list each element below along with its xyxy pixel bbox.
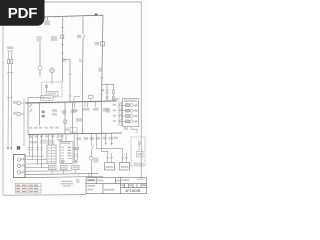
title block texts	[87, 179, 95, 181]
label left of rails	[106, 108, 111, 113]
mark 4P near title block	[76, 179, 79, 183]
branch to V4	[63, 60, 71, 102]
relay row 2	[119, 108, 139, 112]
switchgear box top edge	[28, 97, 44, 99]
feeder drop in box	[39, 103, 41, 125]
fuse branch U-drop	[102, 84, 114, 101]
label mid-1	[52, 109, 57, 112]
main top bus	[43, 15, 103, 17]
junction tick on V1	[100, 77, 103, 79]
relay row 1	[119, 103, 139, 107]
drop D1 from bus2	[91, 134, 93, 178]
switch blade on D1	[92, 146, 94, 150]
bus2 ticks	[30, 134, 58, 136]
CT cups right box	[121, 157, 127, 158]
panel output stubs	[21, 160, 25, 173]
feeder stub into right box	[126, 153, 128, 163]
panel output cable A	[25, 155, 44, 157]
riser wire CB column	[23, 99, 25, 147]
PDF badge	[0, 0, 45, 26]
label V1 mid	[99, 68, 103, 73]
feeder drop x72.5	[72, 102, 74, 134]
below relay box wiring	[131, 127, 137, 134]
stub drop Mc	[95, 101, 97, 107]
breaker blades in box	[30, 104, 32, 112]
legend text cells	[16, 185, 38, 193]
stub drop Ma	[74, 102, 76, 109]
label B on V2	[79, 59, 82, 62]
label box in DB2	[136, 152, 143, 157]
feeder box FB1	[105, 163, 115, 171]
CT cups left box	[106, 157, 112, 158]
box2 text rows	[61, 147, 64, 159]
feeder box FB2	[120, 163, 130, 171]
tick V4	[69, 74, 72, 96]
contact boxes on risers	[73, 147, 75, 150]
stub above bus	[74, 97, 80, 102]
component at branch	[63, 59, 66, 62]
link V2 to bus2	[81, 101, 83, 134]
relay box small on bus2	[70, 128, 77, 132]
box1 text rows	[48, 147, 55, 162]
bottom long bus E2	[25, 173, 98, 174]
feeder drop x65	[64, 102, 66, 134]
bus2 feeder labels	[77, 137, 81, 140]
relay panel box	[123, 99, 139, 127]
junction ticks L1 L2 upper	[7, 72, 13, 74]
pump circle	[74, 160, 77, 163]
drop D3 jumper to right box	[97, 134, 123, 163]
title block outer	[86, 178, 147, 194]
label mid center	[76, 118, 82, 122]
label cluster mid	[51, 36, 57, 41]
relay row labels	[113, 104, 117, 122]
label box L3	[72, 166, 80, 170]
stub drops Mb pair	[85, 101, 88, 107]
label above bus right	[112, 98, 120, 100]
label cluster top-mid	[44, 21, 50, 26]
junction ticks L1 L2 lower	[7, 97, 13, 99]
label Mc	[93, 108, 99, 111]
legend table	[15, 184, 41, 193]
fuse F1	[106, 90, 108, 93]
panel output cable E	[25, 170, 72, 172]
tick marks V3	[61, 27, 64, 53]
contact tick pairs on risers	[28, 148, 43, 150]
link V1 to bus2	[101, 101, 103, 134]
label M1	[95, 42, 100, 45]
relay row 3	[119, 113, 139, 117]
dashed enclosure DB2	[131, 137, 145, 166]
wire feeder V2	[81, 17, 84, 101]
junction block dark	[17, 146, 20, 149]
mid bus ticks	[28, 101, 114, 105]
MCC table box1	[47, 145, 56, 164]
small component x65	[64, 120, 67, 123]
panel feeder text PanelG	[7, 46, 13, 49]
label box DB1 outer	[41, 96, 54, 100]
incoming line L1	[7, 51, 10, 150]
panel output cable D	[25, 167, 49, 169]
stub bus drop	[47, 17, 49, 21]
bus2 labels below	[29, 135, 63, 137]
feeder drop to table box1 a	[48, 135, 50, 145]
label bottom DB2	[134, 162, 144, 165]
label box drops	[52, 170, 75, 174]
CT box on V3	[61, 35, 64, 39]
distribution panel box	[14, 155, 25, 178]
fuse on L2	[11, 60, 13, 64]
label mid-2	[62, 110, 66, 114]
feeder drop to table box1 b	[52, 135, 54, 146]
panel output cable C	[25, 163, 47, 165]
disconnect switch on V1	[102, 89, 104, 93]
small box above bus T1	[90, 99, 92, 102]
stubs CB	[21, 103, 25, 114]
pump riser Pb	[76, 134, 78, 160]
fuse F2	[112, 90, 114, 93]
switch in DB2	[139, 140, 141, 151]
label box L2	[60, 166, 67, 170]
breaker inside DB1	[46, 84, 48, 92]
box2 title	[61, 142, 71, 144]
breaker circle CB-A	[17, 101, 21, 105]
wire G1 drop	[51, 73, 53, 85]
wire feeder V1	[102, 15, 104, 101]
label Mb	[83, 108, 89, 111]
notes under bus2	[30, 141, 37, 143]
panel output cable B	[25, 158, 47, 160]
panel circle labels	[22, 158, 25, 159]
svg-text:4F16D/B: 4F16D/B	[125, 189, 140, 193]
riser wires into panel area	[29, 134, 42, 167]
relay row 4	[119, 119, 139, 123]
switch LA1 blade	[83, 35, 85, 39]
label Ma	[72, 109, 78, 112]
breaker M1 box	[100, 42, 104, 47]
label mid-3	[71, 110, 76, 113]
circle symbol in box2	[61, 160, 64, 163]
breaker circle CB-B	[17, 112, 21, 116]
terminal bars L1 L2	[7, 50, 13, 52]
label on D1	[93, 158, 98, 163]
panel breaker 3	[17, 171, 20, 174]
ticks on risers	[73, 155, 78, 157]
secondary bus2	[28, 133, 122, 134]
label box DB1 inner	[46, 92, 58, 97]
generator circle G1	[50, 68, 54, 72]
meter circle A1	[38, 66, 42, 70]
panel breaker 2	[17, 164, 20, 167]
pump riser Pa	[73, 134, 75, 160]
switchgear box left edge	[27, 98, 29, 135]
contact squares 17B	[42, 111, 45, 114]
feeder stub into left box	[111, 153, 113, 163]
feeder drop to table box2 b	[65, 134, 67, 142]
fuse F4	[112, 96, 114, 99]
wire feeder V3	[61, 17, 64, 82]
bus tab node	[95, 14, 98, 16]
fuse F3	[106, 96, 108, 99]
label V1 below bus	[103, 108, 108, 112]
relay ladder rails	[119, 101, 122, 126]
main mid bus	[25, 101, 117, 103]
sheet background	[0, 0, 149, 198]
drawing frame border	[3, 2, 142, 195]
dashed enclosure DB1	[42, 82, 62, 97]
feeder drop to table box2 a	[61, 134, 63, 142]
label box L1	[49, 166, 57, 170]
bottom long bus F2	[25, 177, 103, 178]
drop D4 jumper to left box	[102, 134, 108, 163]
fuse on L1	[8, 60, 10, 64]
label LA1	[77, 35, 82, 38]
drop D5 with arrow	[105, 134, 107, 145]
panel breaker 1	[17, 158, 20, 161]
relay panel label	[124, 100, 137, 102]
wire feeder V5	[39, 42, 41, 77]
MCC table box2	[60, 142, 73, 164]
labels CB	[13, 101, 17, 104]
drop D6 with arrow	[111, 133, 113, 144]
meter circle on D1	[89, 156, 93, 160]
incoming line L2	[10, 51, 13, 150]
svg-text:PDF: PDF	[8, 5, 37, 22]
drop companion near D1	[88, 173, 90, 178]
arrow terminations L1 L2	[7, 147, 12, 150]
bus tick T1	[45, 16, 72, 18]
box2 arrow symbols	[68, 147, 72, 158]
note text bottom center	[62, 181, 73, 183]
instrument cluster	[36, 36, 41, 42]
label row above bus2	[29, 127, 59, 129]
